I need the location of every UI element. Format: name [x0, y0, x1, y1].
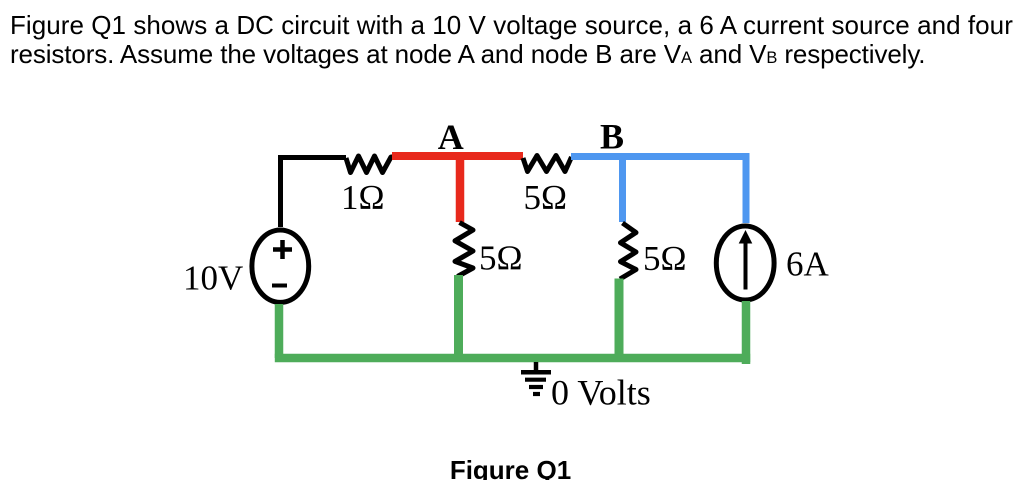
svg-text:5Ω: 5Ω	[643, 239, 687, 278]
wire green left vertical below voltage source	[275, 304, 284, 358]
wire red node A vertical drop	[456, 156, 465, 222]
svg-text:10V: 10V	[183, 259, 243, 298]
svg-text:1Ω: 1Ω	[341, 178, 385, 217]
wire blue node B vertical drop	[619, 156, 626, 222]
wire green vertical below resistor A	[454, 275, 463, 358]
resistor 5Ω horizontal zigzag	[523, 156, 572, 172]
voltage source plus sign	[273, 240, 292, 259]
svg-text:B: B	[600, 117, 624, 157]
resistor 1Ω zigzag	[346, 156, 394, 173]
wire blue right vertical to current source	[743, 153, 750, 223]
wire red node A horizontal	[392, 152, 523, 160]
wire green right vertical below current source	[742, 301, 751, 364]
caption	[0, 455, 1021, 480]
wire blue node B horizontal	[571, 153, 750, 160]
svg-text:0 Volts: 0 Volts	[551, 373, 651, 413]
resistor 5Ω vertical at node B	[620, 223, 636, 279]
wire green vertical below resistor B	[615, 279, 624, 359]
current source arrow	[744, 242, 748, 290]
wire black vertical from voltage source to top rail	[278, 155, 283, 227]
current source I1 circle	[716, 226, 774, 300]
svg-text:6A: 6A	[786, 245, 830, 284]
svg-text:A: A	[438, 117, 464, 157]
svg-text:5Ω: 5Ω	[524, 178, 568, 217]
voltage source V1 circle	[252, 230, 309, 302]
voltage source minus sign	[272, 284, 287, 288]
resistor 5Ω vertical at node A	[455, 223, 473, 277]
wire black top-left horizontal	[278, 155, 346, 160]
wire green bottom rail	[275, 354, 750, 363]
svg-text:5Ω: 5Ω	[479, 239, 523, 278]
ground symbol	[521, 362, 551, 394]
